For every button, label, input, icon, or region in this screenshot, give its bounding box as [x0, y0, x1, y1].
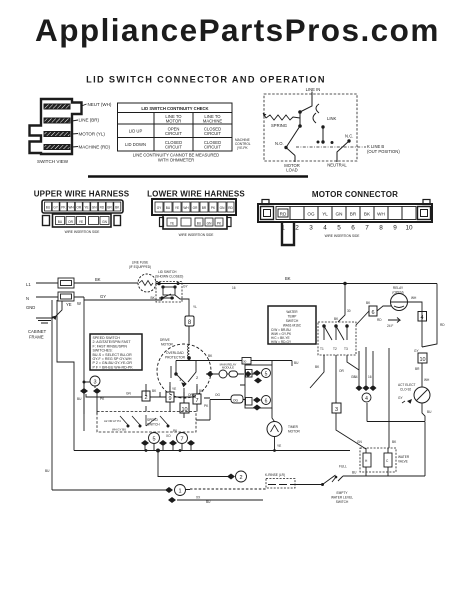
svg-text:CIRCUIT: CIRCUIT	[165, 145, 182, 150]
svg-text:10: 10	[181, 407, 187, 413]
svg-text:WATER LEVEL: WATER LEVEL	[331, 496, 353, 500]
svg-text:9: 9	[168, 396, 171, 402]
svg-text:10: 10	[419, 357, 425, 363]
svg-text:OR: OR	[68, 220, 73, 224]
svg-text:YE: YE	[170, 222, 174, 226]
svg-text:8: 8	[379, 225, 383, 232]
hot rail junction drop	[343, 282, 346, 285]
circled 3	[90, 376, 100, 386]
line in wire	[300, 92, 312, 127]
svg-text:WIRE INSERTION SIDE: WIRE INSERTION SIDE	[179, 233, 214, 237]
svg-text:9: 9	[393, 225, 397, 232]
svg-text:RELAY: RELAY	[393, 286, 404, 290]
overload protector	[165, 351, 186, 360]
svg-text:P F = BR-BU WH-RD-PK: P F = BR-BU WH-RD-PK	[93, 365, 134, 369]
lower harness connector bottom row	[160, 215, 232, 229]
svg-text:OR: OR	[339, 369, 344, 373]
svg-text:TIMER: TIMER	[288, 425, 299, 429]
motor connector pin numbers	[281, 225, 413, 232]
svg-text:OR: OR	[193, 206, 198, 210]
svg-text:GY: GY	[100, 294, 106, 299]
boxed pin 4	[418, 312, 427, 322]
svg-text:(OUT POSITION): (OUT POSITION)	[367, 149, 400, 154]
svg-text:4: 4	[323, 225, 327, 232]
svg-text:GN: GN	[220, 206, 225, 210]
svg-text:MACHINE (RD): MACHINE (RD)	[79, 145, 111, 150]
svg-text:LID DOWN: LID DOWN	[125, 142, 146, 147]
svg-text:BU: BU	[199, 389, 204, 393]
mid dots	[317, 141, 320, 144]
svg-text:N: N	[26, 296, 29, 301]
svg-text:7: 7	[195, 398, 198, 404]
svg-text:WITH OHMMETER: WITH OHMMETER	[158, 158, 194, 163]
lid switch operation circuit: dashed enclosure	[264, 94, 357, 161]
svg-text:BU: BU	[46, 206, 51, 210]
svg-text:BU: BU	[197, 222, 202, 226]
clutch circle	[414, 387, 430, 403]
schematic small labels (left)	[26, 277, 106, 310]
svg-text:MOTOR CONNECTOR: MOTOR CONNECTOR	[312, 190, 398, 199]
wires through boxes into speed switch	[146, 384, 197, 418]
svg-text:CIRCUIT: CIRCUIT	[165, 131, 182, 136]
upper harness connector bottom row	[43, 214, 121, 227]
svg-text:5: 5	[265, 372, 268, 378]
svg-text:BU: BU	[77, 397, 82, 401]
svg-text:GND: GND	[26, 305, 35, 310]
ground branch	[56, 301, 62, 316]
svg-text:GN: GN	[357, 440, 362, 444]
svg-text:BK: BK	[285, 276, 291, 281]
lid switch connector body (switch view)	[30, 99, 82, 154]
circled 7	[177, 433, 188, 444]
svg-text:BU: BU	[294, 361, 299, 365]
svg-text:A2 OR A7 P4: A2 OR A7 P4	[104, 419, 121, 423]
svg-text:WIRE INSERTION SIDE: WIRE INSERTION SIDE	[65, 230, 100, 234]
svg-text:SWITCH VIEW: SWITCH VIEW	[37, 159, 69, 164]
water level switch label	[331, 491, 353, 504]
bottom right run	[338, 472, 425, 481]
motor chain diamond	[207, 371, 252, 377]
svg-text:WH: WH	[411, 296, 417, 300]
svg-text:2: 2	[239, 475, 242, 481]
svg-text:T2: T2	[333, 347, 337, 351]
coil pill	[229, 371, 238, 377]
line fuse	[138, 274, 156, 292]
svg-text:7: 7	[180, 437, 183, 443]
svg-text:WH: WH	[377, 212, 385, 217]
svg-text:BU: BU	[45, 469, 50, 473]
svg-text:BU: BU	[352, 471, 357, 475]
svg-text:GN: GN	[102, 220, 107, 224]
drive motor	[157, 344, 211, 398]
svg-text:MOTOR (YL): MOTOR (YL)	[79, 132, 106, 137]
svg-text:SPEED: SPEED	[147, 418, 159, 422]
L1 terminal box	[58, 278, 74, 288]
timer motor	[267, 422, 282, 437]
motor connector cells	[276, 207, 416, 220]
circled 5	[149, 433, 160, 444]
pin labels	[79, 102, 112, 150]
lid switch continuity table	[118, 103, 233, 151]
svg-text:GN: GN	[207, 222, 212, 226]
svg-text:4: 4	[365, 396, 368, 402]
svg-text:FRAME: FRAME	[29, 335, 44, 340]
svg-text:16: 16	[232, 286, 236, 290]
clutch to valve run	[367, 403, 425, 476]
svg-text:16: 16	[368, 375, 372, 379]
svg-text:SWITCH: SWITCH	[286, 319, 299, 323]
neutral contact	[337, 141, 349, 162]
svg-text:BU: BU	[206, 500, 211, 504]
svg-text:PROTECTOR: PROTECTOR	[165, 356, 186, 360]
svg-text:(OPEN): (OPEN)	[392, 291, 403, 295]
svg-text:N.C.: N.C.	[345, 134, 353, 139]
svg-text:OG: OG	[307, 212, 315, 217]
svg-text:XO: XO	[166, 434, 171, 438]
svg-text:BU: BU	[427, 410, 432, 414]
svg-text:3: 3	[93, 380, 96, 386]
svg-text:14: 14	[354, 375, 358, 379]
svg-text:T1: T1	[320, 347, 324, 351]
motor pin box 7	[193, 394, 201, 404]
speed row wire	[86, 394, 210, 398]
neutral rail	[36, 297, 162, 300]
relay circle	[391, 294, 408, 311]
svg-text:MOTOR: MOTOR	[166, 119, 182, 124]
svg-text:LINK: LINK	[327, 116, 337, 121]
run module box	[242, 358, 251, 365]
svg-text:EMPTY: EMPTY	[337, 491, 349, 495]
svg-text:UPPER WIRE HARNESS: UPPER WIRE HARNESS	[34, 190, 130, 199]
svg-text:4: 4	[420, 315, 423, 321]
svg-text:OG: OG	[233, 399, 238, 403]
svg-text:3: 3	[335, 407, 338, 413]
svg-text:AppliancePartsPros.com: AppliancePartsPros.com	[35, 12, 440, 48]
motor to block wiring	[176, 361, 292, 386]
svg-text:W: W	[77, 301, 81, 306]
temp switch drops	[310, 348, 389, 421]
svg-text:2: 2	[295, 225, 299, 232]
svg-text:CLO-92: CLO-92	[400, 388, 411, 392]
svg-text:WA61-M16C: WA61-M16C	[283, 324, 302, 328]
svg-text:OG: OG	[215, 393, 220, 397]
right rail	[407, 284, 437, 348]
motor pin box 10	[180, 403, 189, 413]
table note	[133, 153, 219, 163]
motor pin box 9	[166, 392, 174, 402]
svg-text:DRIVE: DRIVE	[160, 338, 170, 342]
slot leader lines	[72, 104, 87, 147]
pill box OG	[231, 395, 243, 403]
boxed pin 8	[185, 316, 194, 326]
svg-text:NEUT (WH): NEUT (WH)	[88, 102, 112, 107]
svg-text:FULL: FULL	[339, 465, 347, 469]
svg-text:WATER: WATER	[286, 310, 298, 314]
boxed pin 3	[332, 403, 341, 413]
connector slot 1	[44, 104, 70, 109]
circled 1	[175, 485, 186, 496]
svg-text:YE: YE	[277, 444, 281, 448]
svg-text:WH GY BU: WH GY BU	[112, 428, 126, 432]
svg-text:ACT ELECT: ACT ELECT	[398, 383, 416, 387]
link bar	[322, 127, 324, 142]
svg-text:GN: GN	[336, 212, 343, 217]
svg-text:LINE IN: LINE IN	[306, 87, 321, 92]
svg-text:GN: GN	[92, 206, 97, 210]
svg-text:WATER: WATER	[398, 455, 410, 459]
svg-text:5: 5	[152, 437, 155, 443]
clutch arrow	[407, 399, 412, 404]
svg-text:BK: BK	[364, 212, 371, 217]
section separator line	[88, 175, 308, 178]
svg-text:CIRCUIT: CIRCUIT	[204, 145, 221, 150]
svg-text:BU: BU	[166, 206, 171, 210]
svg-text:(YE-PK: (YE-PK	[237, 146, 249, 150]
machine control note	[235, 138, 251, 150]
svg-text:BR: BR	[415, 367, 420, 371]
svg-text:SWITCH: SWITCH	[336, 500, 349, 504]
out position note	[367, 144, 400, 154]
svg-text:RD: RD	[100, 206, 105, 210]
arrows at 5 and 7	[141, 440, 195, 446]
svg-text:YL: YL	[322, 212, 328, 217]
lid switch box	[156, 282, 182, 303]
upper harness connector top row	[42, 200, 123, 213]
main hot rail	[36, 282, 437, 285]
lower harness connector top row	[152, 199, 236, 215]
svg-text:LINE FUSE: LINE FUSE	[132, 261, 148, 265]
svg-text:LOAD: LOAD	[286, 168, 297, 173]
connector block circled 5/6	[245, 365, 272, 408]
connector slot 3	[44, 132, 70, 137]
water temp switch dashed box	[318, 322, 356, 355]
svg-text:OVERLOAD: OVERLOAD	[166, 351, 184, 355]
bottom left runs	[52, 449, 266, 500]
left outer rail	[52, 300, 74, 490]
svg-text:30: 30	[347, 309, 351, 313]
svg-text:MODULE: MODULE	[222, 366, 234, 370]
svg-text:MOTOR: MOTOR	[288, 430, 301, 434]
junction dots	[298, 110, 302, 114]
svg-text:L1: L1	[26, 282, 31, 287]
YL drop to connector 8	[188, 326, 190, 341]
svg-text:RD: RD	[377, 318, 382, 322]
svg-text:LID SWITCH CONNECTOR AND OPERA: LID SWITCH CONNECTOR AND OPERATION	[86, 75, 326, 85]
svg-text:RD: RD	[228, 206, 233, 210]
motor pin box 2	[142, 391, 150, 401]
cabinet frame label	[28, 329, 47, 340]
svg-text:RD: RD	[280, 212, 287, 217]
node arrows under 3	[80, 388, 101, 394]
svg-text:NEUTRAL: NEUTRAL	[327, 163, 347, 168]
water valve	[360, 448, 396, 472]
svg-text:CABINET: CABINET	[28, 329, 47, 334]
relay left box	[369, 306, 377, 316]
svg-text:MACHINE: MACHINE	[203, 119, 223, 124]
motor internals	[171, 326, 196, 387]
motor harness hook	[282, 222, 294, 245]
temp drops with arrows and circled 4	[359, 347, 373, 385]
coil circle	[219, 370, 227, 378]
relay arrow	[388, 318, 400, 323]
boxed pin 10	[418, 353, 427, 363]
svg-text:BR: BR	[202, 206, 207, 210]
svg-text:30: 30	[243, 360, 247, 364]
svg-text:LID SWITCH: LID SWITCH	[158, 270, 177, 274]
line fuse label	[129, 261, 151, 270]
svg-text:(SHOWN CLOSED): (SHOWN CLOSED)	[155, 275, 183, 279]
svg-text:(IF EQUIPPED): (IF EQUIPPED)	[129, 265, 151, 269]
svg-text:H/W = RD-GY: H/W = RD-GY	[271, 340, 292, 344]
inner left rail	[83, 300, 85, 431]
lid switch label	[155, 270, 183, 279]
svg-text:YE: YE	[175, 206, 179, 210]
svg-text:6: 6	[351, 225, 355, 232]
speed switch legend box	[90, 334, 142, 370]
svg-text:WH: WH	[183, 206, 189, 210]
svg-text:5: 5	[337, 225, 341, 232]
svg-text:BK: BK	[95, 277, 101, 282]
svg-text:MOTOR: MOTOR	[161, 343, 174, 347]
svg-text:BR: BR	[350, 212, 357, 217]
connector slot 2	[44, 118, 70, 123]
svg-text:3: 3	[309, 225, 313, 232]
svg-text:OR: OR	[76, 206, 81, 210]
svg-text:LID UP: LID UP	[129, 129, 143, 134]
svg-text:CIRCUIT: CIRCUIT	[204, 131, 221, 136]
svg-text:GN: GN	[126, 392, 131, 396]
svg-text:WIRE INSERTION SIDE: WIRE INSERTION SIDE	[325, 234, 360, 238]
svg-text:24 F: 24 F	[387, 324, 393, 328]
svg-text:YE: YE	[172, 387, 176, 391]
svg-text:7: 7	[365, 225, 369, 232]
circled 2	[236, 471, 247, 482]
motor exit wires down	[160, 382, 197, 403]
svg-text:RD: RD	[440, 323, 445, 327]
svg-text:SPRING: SPRING	[271, 123, 287, 128]
connector slot 4	[44, 145, 70, 150]
svg-text:LID SWITCH CONTINUITY CHECK: LID SWITCH CONTINUITY CHECK	[141, 106, 208, 111]
speed switch dashed box	[97, 412, 196, 433]
svg-text:T3: T3	[344, 347, 348, 351]
svg-text:1: 1	[178, 489, 181, 495]
spring	[263, 113, 300, 120]
svg-text:10: 10	[405, 225, 413, 232]
bottom rail of schematic box	[74, 450, 350, 452]
svg-text:WH: WH	[424, 378, 430, 382]
svg-text:BU: BU	[58, 220, 63, 224]
svg-text:YE: YE	[84, 206, 88, 210]
dash-dot out line	[296, 146, 366, 148]
motor load stub	[286, 148, 295, 163]
svg-text:VALVE: VALVE	[398, 460, 408, 464]
svg-text:6: 6	[371, 310, 374, 316]
svg-text:K-RINSE (LR): K-RINSE (LR)	[265, 473, 285, 477]
svg-text:N.O.: N.O.	[275, 141, 284, 146]
motor connector strip	[258, 200, 432, 223]
svg-text:YL: YL	[193, 305, 197, 309]
svg-text:YE: YE	[79, 220, 83, 224]
N terminal box	[58, 292, 74, 301]
svg-text:6: 6	[265, 399, 268, 405]
svg-text:TEMP: TEMP	[288, 315, 297, 319]
svg-text:LOWER WIRE HARNESS: LOWER WIRE HARNESS	[147, 190, 245, 199]
svg-text:LINE (BR): LINE (BR)	[79, 118, 100, 123]
water temp legend box	[268, 306, 316, 344]
svg-text:WH: WH	[68, 206, 74, 210]
svg-text:YE: YE	[66, 302, 72, 307]
svg-text:BR: BR	[107, 206, 112, 210]
